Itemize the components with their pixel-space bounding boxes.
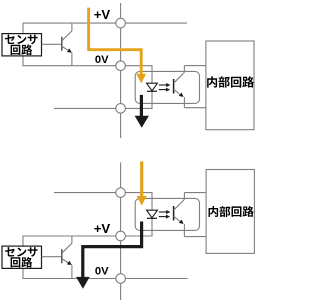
current flow arrow black: LED out through sensor to 0V (bottom diagram) [76, 222, 142, 289]
wire COM rail (top diagram) [54, 107, 153, 109]
node 0V terminal circle (bottom diagram) [116, 274, 126, 284]
internal circuit box 内部回路 (bottom diagram) [206, 170, 254, 254]
wire 0V rail (top diagram) [22, 65, 152, 67]
LED of optocoupler (top diagram) [147, 83, 158, 91]
wire vertical bus line (bottom diagram) [120, 162, 122, 300]
sensor circuit box センサ回路 (bottom diagram) [2, 246, 42, 268]
wire input rail (bottom diagram) [54, 192, 153, 194]
svg-text:+V: +V [94, 7, 111, 22]
transistor Q1 sensor output (top diagram) [42, 23, 72, 66]
wire +V rail (bottom diagram) [22, 235, 152, 237]
wire sensor box bottom lead (bottom diagram) [22, 268, 24, 278]
wire sensor box top lead (bottom diagram) [22, 236, 24, 246]
svg-text:0V: 0V [95, 54, 109, 66]
light emission arrows (top diagram) [159, 83, 171, 92]
node +V terminal circle (top diagram) [116, 18, 126, 28]
phototransistor of optocoupler (top diagram) [174, 66, 206, 108]
wire 0V rail (bottom diagram) [22, 278, 187, 280]
wire LED lead vertical (top diagram) [151, 66, 153, 109]
wire sensor box bottom lead (top diagram) [22, 56, 24, 66]
phototransistor of optocoupler (bottom diagram) [174, 193, 207, 237]
node +V terminal circle (bottom diagram) [116, 231, 126, 241]
LED of optocoupler (bottom diagram) [147, 210, 158, 218]
optocoupler U1 package body (top diagram) [135, 71, 199, 103]
wire vertical bus line (top diagram) [120, 3, 122, 138]
wire LED lead vertical (bottom diagram) [151, 193, 153, 236]
sensor circuit box センサ回路 (top diagram) [2, 34, 42, 56]
optocoupler U2 package body (bottom diagram) [135, 198, 199, 230]
wire +V rail (top diagram) [23, 22, 187, 24]
internal circuit box 内部回路 (top diagram) [206, 41, 254, 130]
current flow arrow orange: from internal supply into LED (bottom diagram) [137, 161, 147, 205]
transistor Q2 sensor output (bottom diagram) [42, 236, 72, 279]
svg-text:+V: +V [94, 221, 111, 236]
node 0V terminal circle (top diagram) [116, 61, 126, 71]
wire sensor box top lead (top diagram) [22, 23, 24, 33]
current flow arrow black: LED out to COM (top diagram) [135, 95, 149, 128]
light emission arrows (bottom diagram) [159, 210, 171, 219]
svg-text:0V: 0V [95, 266, 109, 278]
node input terminal circle (bottom diagram) [116, 188, 126, 198]
node COM terminal circle (top diagram) [116, 104, 126, 114]
current flow arrow orange: +V through sensor into LED (top diagram) [89, 8, 147, 84]
